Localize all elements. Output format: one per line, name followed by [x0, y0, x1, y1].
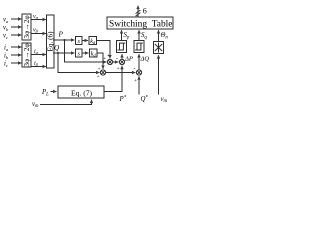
wire dQ to hysteresis	[138, 54, 140, 70]
svg-text:PL: PL	[41, 89, 49, 98]
svg-text:+: +	[117, 66, 120, 72]
block k_d gain Q row	[90, 49, 98, 58]
wire i_alpha	[31, 54, 46, 56]
wire v_m to Eq7	[40, 100, 92, 105]
block 3phi->2phi voltage transform	[22, 14, 31, 40]
svg-text:+: +	[97, 74, 100, 80]
wire Q	[53, 52, 74, 54]
block 3phi->2phi current transform	[22, 43, 31, 67]
wire i_b	[11, 54, 21, 56]
block sector detector	[154, 42, 164, 54]
svg-text:P: P	[58, 30, 64, 38]
wire v_c	[11, 34, 21, 36]
wire v_a	[11, 18, 21, 20]
summing junction P predictor	[107, 59, 112, 64]
svg-text:ΔQ: ΔQ	[140, 56, 150, 63]
wire v_b	[11, 26, 21, 28]
svg-text:Switching Table: Switching Table	[109, 19, 172, 29]
svg-text:Θn: Θn	[161, 32, 169, 41]
svg-text:Q*: Q*	[141, 95, 149, 102]
wire theta_n	[158, 30, 160, 41]
wire v_alpha	[31, 19, 46, 21]
svg-text:Sp: Sp	[124, 32, 130, 41]
wire P tap to P summer	[65, 40, 107, 62]
block Eq. (7) power reference	[58, 86, 104, 98]
summing junction P comparator	[119, 59, 124, 64]
wire s2 to kd2	[82, 52, 88, 54]
wire i_beta	[31, 66, 46, 68]
wire v_beta	[31, 33, 46, 35]
wire kd2 output down to Q summer	[97, 53, 103, 69]
wire dP to hysteresis	[121, 54, 123, 59]
junction dot on Q	[57, 52, 59, 54]
svg-text:+: +	[107, 53, 110, 59]
wire P summer to P comparator	[113, 61, 119, 63]
svg-text:kd: kd	[91, 52, 97, 58]
svg-text:ΔP: ΔP	[124, 56, 133, 63]
wire s1 to kd1	[82, 40, 88, 42]
svg-text:-: -	[116, 56, 118, 62]
svg-text:ib: ib	[4, 53, 9, 60]
block k_d gain P row	[89, 37, 97, 46]
block Eq. (6) power calculator	[47, 15, 55, 68]
bus slash marks	[136, 10, 141, 16]
wire v_m input to sector detector	[158, 55, 160, 94]
svg-text:vm: vm	[32, 101, 39, 109]
svg-text:vβ: vβ	[33, 28, 39, 34]
svg-text:+: +	[134, 78, 137, 84]
summing junction Q comparator	[136, 70, 141, 75]
svg-text:kd: kd	[90, 39, 96, 45]
wire P* from Eq7 to P comparator	[104, 66, 122, 92]
svg-text:3φ→2φ: 3φ→2φ	[22, 15, 31, 38]
svg-text:vα: vα	[33, 14, 39, 20]
wire Q* input	[138, 76, 140, 94]
svg-text:ia: ia	[4, 45, 9, 52]
svg-text:-: -	[134, 67, 136, 73]
svg-text:vm: vm	[161, 96, 168, 104]
block s (derivative) P row	[76, 37, 83, 46]
wire Q summer to Q comparator	[106, 72, 136, 74]
svg-text:Eq. (7): Eq. (7)	[71, 88, 93, 97]
junction dot on P	[63, 39, 65, 41]
wire P_L	[51, 91, 57, 93]
svg-text:Sq: Sq	[141, 32, 147, 41]
wire gate signals up	[137, 6, 139, 17]
block switching table	[107, 17, 173, 29]
wire S_p	[121, 30, 123, 40]
block hysteresis comparator P	[117, 41, 127, 53]
svg-text:+: +	[98, 67, 101, 73]
block hysteresis comparator Q	[134, 41, 144, 53]
svg-text:ic: ic	[4, 61, 8, 68]
svg-text:Q: Q	[54, 44, 60, 52]
wire Q tap to Q summer	[58, 53, 99, 73]
svg-text:3φ→2φ: 3φ→2φ	[22, 43, 31, 66]
svg-text:vc: vc	[3, 33, 8, 40]
svg-text:P*: P*	[119, 95, 127, 102]
block s (derivative) Q row	[76, 49, 83, 58]
svg-text:vb: vb	[3, 25, 9, 32]
wire i_a	[11, 46, 21, 48]
svg-text:6: 6	[143, 7, 147, 16]
summing junction Q predictor	[100, 70, 105, 75]
wire S_q	[138, 30, 140, 40]
wire P	[53, 39, 74, 41]
wire kd1 output down to P summer	[97, 41, 111, 59]
svg-text:va: va	[3, 17, 9, 24]
wire i_c	[11, 62, 21, 64]
